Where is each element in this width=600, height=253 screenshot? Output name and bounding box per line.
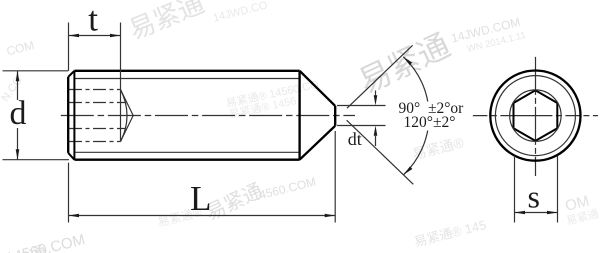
angle text mask	[398, 102, 465, 131]
watermark top-left corner 2	[0, 74, 25, 104]
watermark right-edge	[563, 193, 591, 215]
dim s line	[515, 212, 558, 214]
body top edge	[74, 70, 299, 72]
dim dt arrow shaft top	[375, 91, 377, 96]
body bottom edge	[74, 159, 299, 161]
angle line upper	[347, 45, 413, 108]
dim s arrow right	[547, 211, 558, 215]
watermark top-center logo	[125, 0, 209, 45]
end view center vertical	[535, 57, 537, 176]
dim dt extension bottom	[337, 125, 386, 127]
dim t extension left	[68, 23, 70, 71]
end view center horizontal	[473, 115, 598, 117]
dim L extension right	[334, 131, 336, 223]
dim d arrow up	[16, 71, 20, 82]
socket drill cone lower	[121, 116, 134, 142]
end view socket circle	[510, 90, 561, 141]
end view chamfer circle	[495, 76, 575, 156]
dim d extension bottom	[3, 159, 70, 161]
dim L arrow left	[69, 214, 80, 218]
angle arc arrow upper	[403, 57, 412, 65]
watermark mid body row 1	[225, 78, 320, 110]
socket hidden line upper inner	[69, 102, 125, 104]
dim s extension left	[514, 156, 516, 223]
chamfer edge line	[73, 71, 75, 160]
cone slant bottom	[300, 126, 336, 160]
dim dt arrow shaft bottom	[375, 136, 377, 146]
dim d line lower segment	[17, 128, 19, 160]
watermark bottom-center url	[251, 175, 317, 204]
watermark right-edge 2	[565, 207, 600, 228]
svg-text:d: d	[10, 95, 27, 132]
dim s arrow left	[515, 211, 526, 215]
watermark mid right row	[411, 134, 466, 162]
dim d arrow down	[16, 149, 20, 160]
svg-text:易紧通®: 易紧通®	[411, 134, 466, 162]
socket hidden line upper outer	[69, 89, 121, 91]
dim t arrow left	[69, 34, 80, 38]
cone slant top	[300, 71, 336, 106]
dim dt arrow up	[374, 126, 378, 136]
svg-text:COM: COM	[5, 38, 36, 58]
angle arc	[403, 57, 429, 175]
dim dt arrow down	[374, 95, 378, 105]
watermark bottom-center trail	[156, 205, 203, 229]
watermark bottom-center chars	[202, 179, 266, 225]
cone tip flat	[334, 106, 336, 126]
dim L arrow right	[325, 214, 336, 218]
chamfer bottom diagonal	[68, 153, 74, 160]
watermark top-left corner	[5, 38, 36, 58]
left face	[67, 77, 69, 153]
watermark mid body row 2	[228, 94, 298, 121]
dim t line	[69, 35, 121, 37]
socket drill cone arc	[121, 90, 128, 142]
dim t extension right	[120, 23, 122, 90]
watermark top-right logo	[353, 27, 455, 100]
svg-text:120°±2°: 120°±2°	[404, 114, 456, 131]
dim L line	[69, 215, 336, 217]
svg-text:易紧通: 易紧通	[125, 0, 209, 45]
watermark top-center url	[212, 0, 269, 25]
svg-text:易紧通® 145: 易紧通® 145	[412, 217, 487, 249]
svg-text:易紧通: 易紧通	[353, 27, 455, 100]
watermark top-right url	[450, 15, 522, 46]
socket end line	[120, 90, 122, 142]
dim dt extension top	[337, 105, 386, 107]
svg-text:14JWD.CO: 14JWD.CO	[212, 0, 269, 25]
svg-text:14560.COM: 14560.COM	[251, 175, 317, 204]
angle arc arrow lower	[404, 166, 413, 174]
svg-text:s: s	[528, 179, 540, 215]
end view outer circle	[490, 71, 580, 161]
thread line top	[74, 78, 299, 80]
socket hidden line lower outer	[69, 141, 121, 143]
watermark top-right date	[466, 30, 527, 55]
thread line bottom	[74, 151, 299, 153]
watermark bottom-left chars	[0, 242, 50, 253]
svg-text:t: t	[88, 0, 98, 39]
dim d line upper segment	[17, 71, 19, 100]
watermark bottom-right chars	[412, 217, 487, 249]
socket hidden line lower inner	[69, 128, 125, 130]
dim s extension right	[557, 156, 559, 223]
end view hex socket	[513, 90, 557, 141]
socket drill cone upper	[121, 90, 134, 116]
dim t arrow right	[110, 34, 121, 38]
cone base line	[298, 71, 300, 160]
watermark bottom-left url	[4, 231, 87, 253]
dim d extension top	[3, 70, 69, 72]
centerline side view	[61, 115, 355, 117]
svg-text:L: L	[190, 179, 211, 218]
angle line lower	[347, 120, 414, 184]
chamfer top diagonal	[68, 71, 74, 77]
dim L extension left	[68, 163, 70, 223]
